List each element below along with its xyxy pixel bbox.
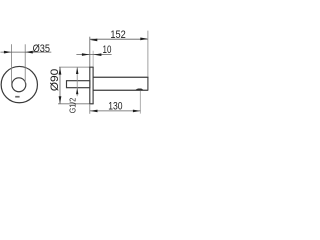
svg-text:10: 10 bbox=[103, 44, 112, 56]
svg-text:130: 130 bbox=[108, 101, 122, 113]
G1/2 connector box bbox=[67, 81, 90, 88]
svg-text:152: 152 bbox=[110, 29, 125, 41]
dimension Ø90 bottom extension line (shared with side plate bottom) bbox=[58, 103, 94, 105]
G1/2 leader arrow at connector bbox=[76, 88, 78, 94]
svg-text:Ø35: Ø35 bbox=[33, 43, 50, 55]
dimension Ø90 dimension line bbox=[59, 67, 61, 104]
side view plate top edge bbox=[89, 66, 93, 68]
dimension 130 right arrow bbox=[133, 110, 141, 113]
front view outer circle (escutcheon Ø90) bbox=[1, 66, 37, 102]
dimension 10 dimension line bbox=[76, 54, 111, 56]
spout tip face bbox=[147, 77, 149, 91]
dimension Ø35 right arrow bbox=[25, 51, 32, 54]
dimension Ø90 bottom arrow bbox=[59, 96, 62, 103]
front view inner circle (spout Ø35) bbox=[12, 78, 26, 92]
dimension Ø90 top arrow bbox=[59, 67, 62, 74]
dimension Ø35 left arrow bbox=[4, 51, 11, 54]
side view wall line upper extension bbox=[89, 37, 91, 67]
svg-text:Ø90: Ø90 bbox=[49, 69, 61, 92]
svg-text:G1/2: G1/2 bbox=[69, 97, 78, 113]
spout tube top edge bbox=[93, 76, 148, 78]
side view plate bottom edge bbox=[89, 103, 93, 105]
KEUCO logo mark bbox=[15, 96, 19, 98]
dimension 152 right extension line / tip extension bbox=[147, 31, 149, 77]
dimension 130 dimension line bbox=[90, 110, 141, 112]
dimension Ø90 top extension line (shared with side plate top) bbox=[59, 66, 94, 68]
dimension 130 left arrow bbox=[90, 110, 98, 113]
dimension 130 left extension line bbox=[89, 104, 91, 114]
dimension Ø35 dimension line bbox=[0, 51, 51, 53]
dimension 10 right arrow bbox=[93, 53, 101, 56]
dimension 152 dimension line bbox=[90, 38, 148, 40]
side view plate front line upper extension bbox=[92, 51, 94, 67]
dimension 152 right arrow bbox=[140, 38, 147, 41]
side view plate front line bbox=[92, 67, 94, 104]
spout tube bottom edge bbox=[93, 89, 148, 91]
dimension Ø35 extension line left bbox=[11, 44, 13, 83]
dimension 10 left arrow bbox=[82, 53, 90, 56]
dimension 130 right extension line bbox=[139, 91, 141, 114]
leader top arrow at plate top bbox=[76, 67, 79, 74]
dimension 152 left arrow bbox=[90, 39, 97, 42]
aerator bump at tube tip bbox=[135, 89, 143, 91]
side view wall / plate back line bbox=[89, 67, 91, 104]
G1/2 leader line bbox=[76, 67, 78, 96]
dimension Ø35 extension line right bbox=[24, 44, 26, 83]
